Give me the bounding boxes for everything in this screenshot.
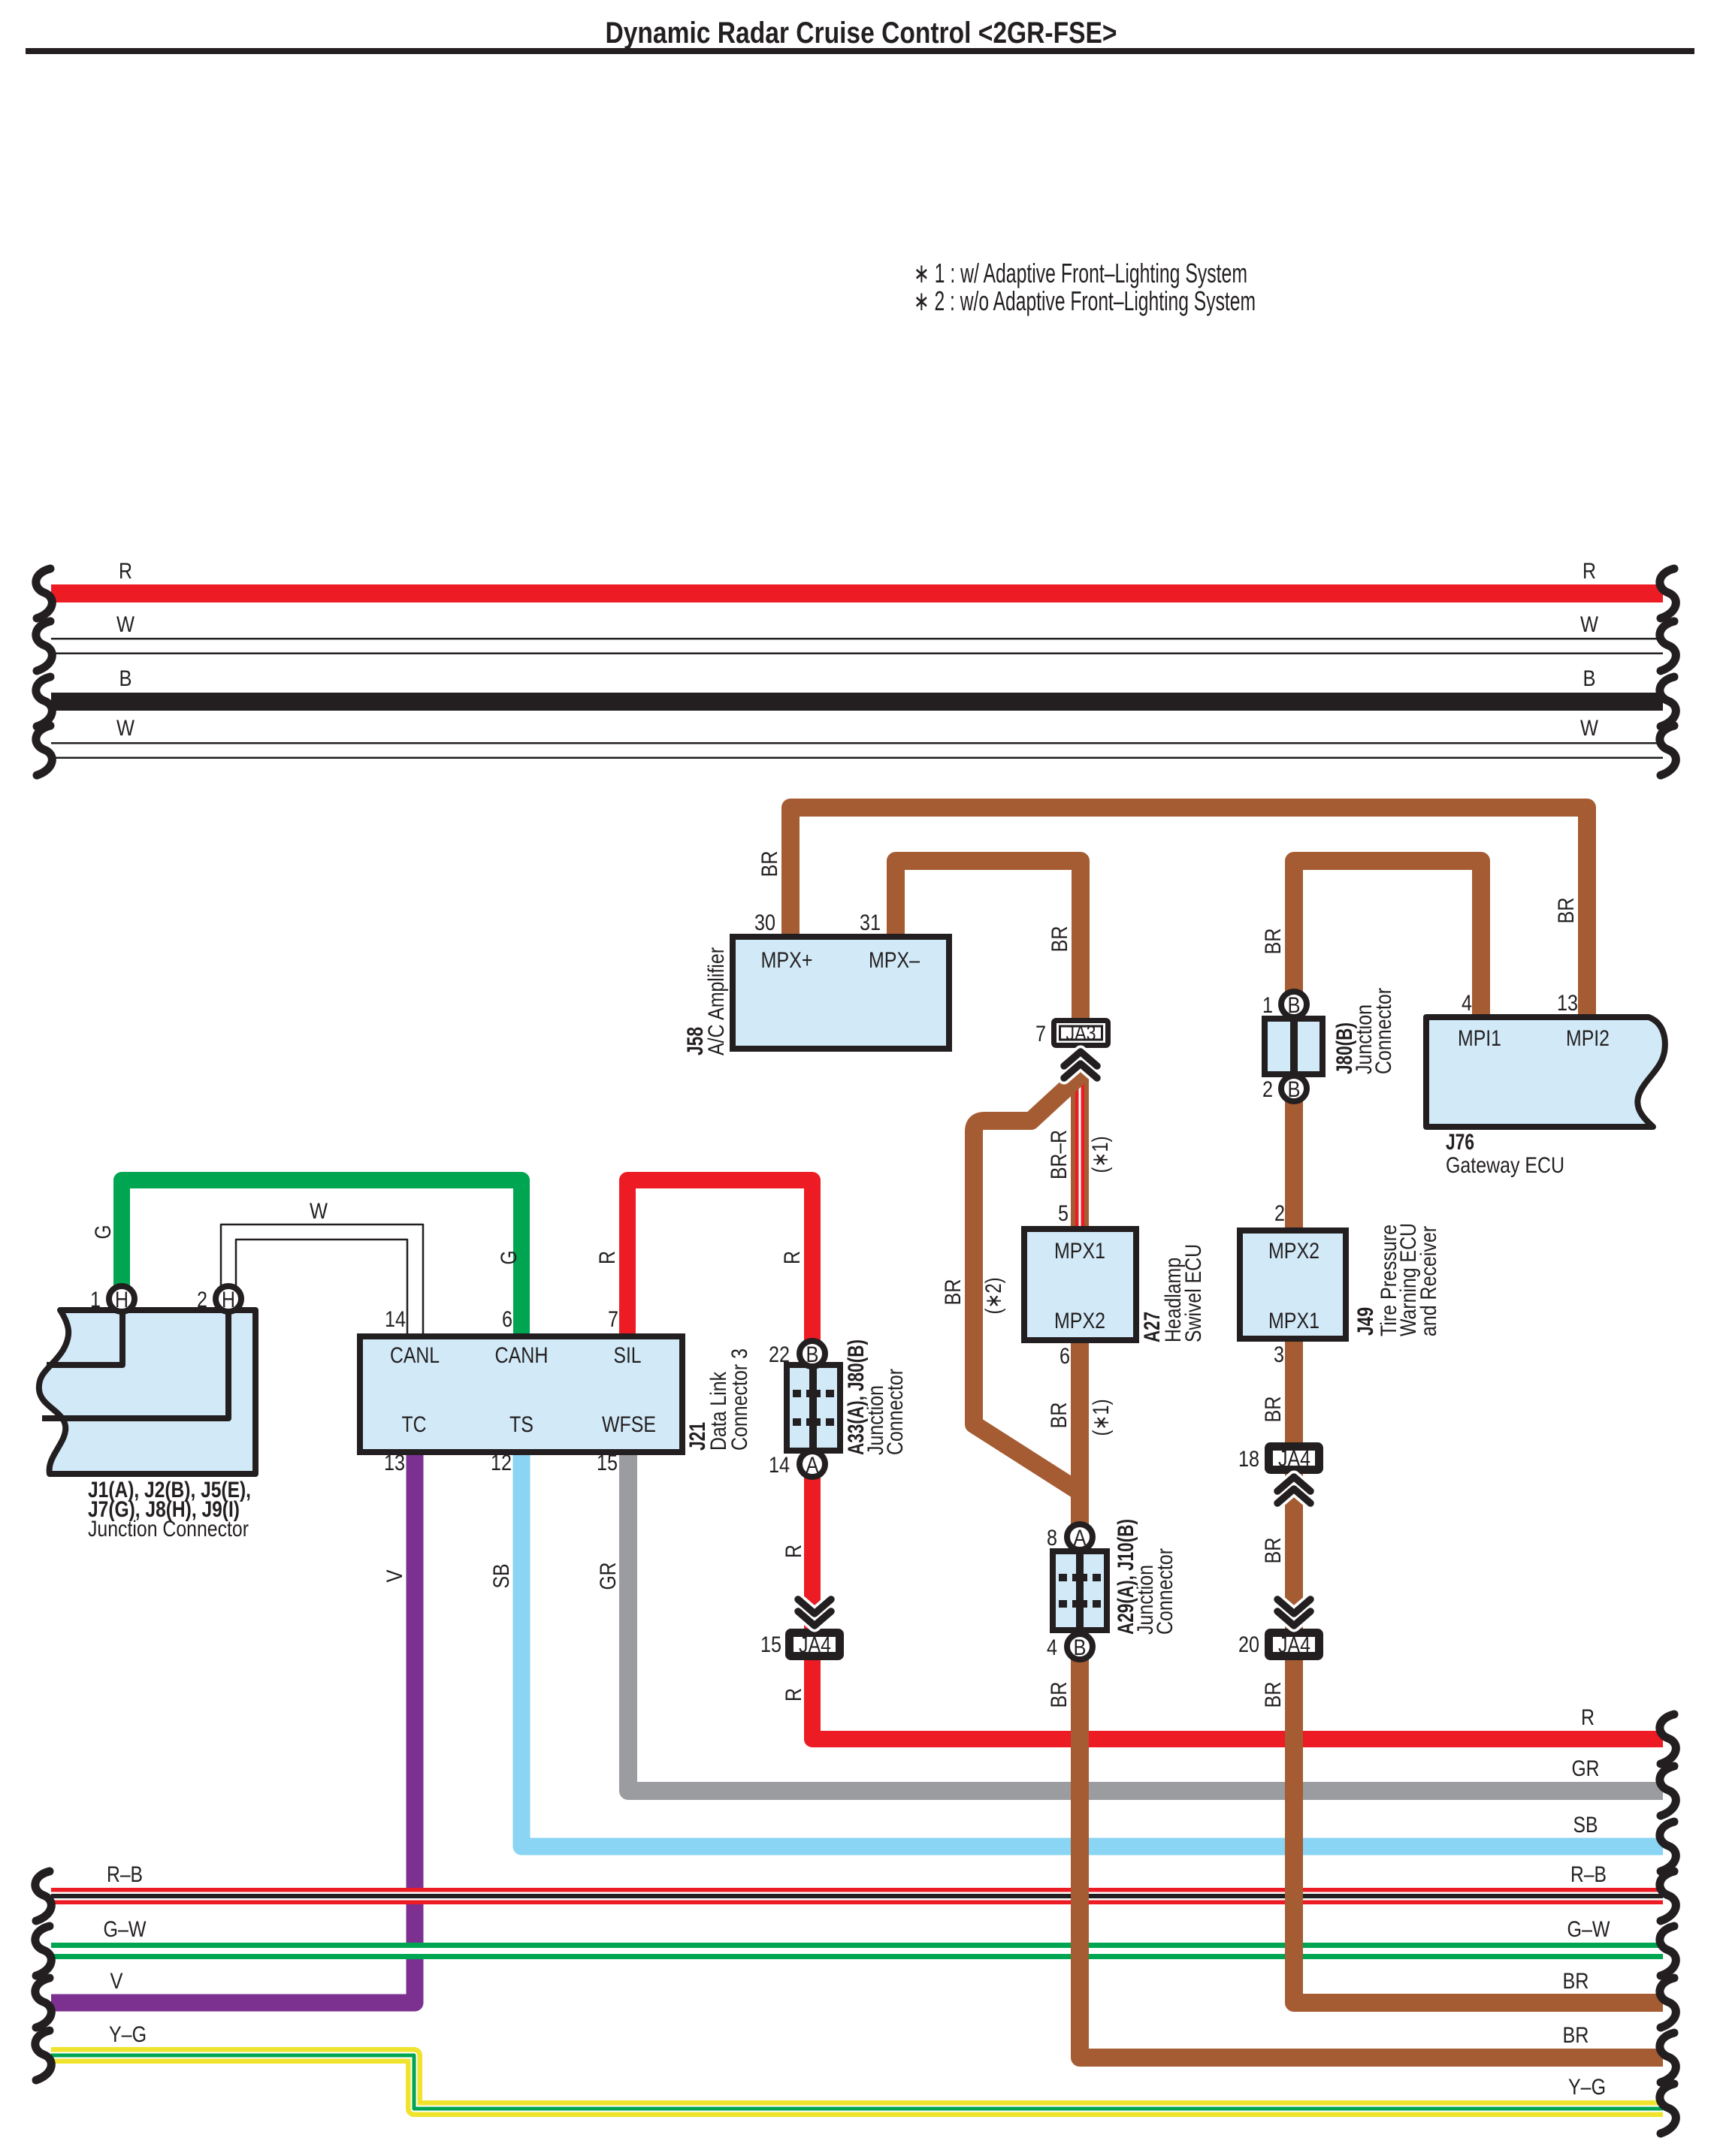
svg-text:15: 15 bbox=[760, 1632, 781, 1657]
chevron arrow at JA3 bbox=[1064, 1052, 1097, 1066]
svg-text:MPI2: MPI2 bbox=[1566, 1026, 1610, 1051]
wire BR J58 pin30 to J76 MPI2 bbox=[790, 808, 1587, 1019]
wire R top bus bbox=[51, 584, 1663, 602]
svg-text:R: R bbox=[781, 1545, 806, 1558]
svg-text:Junction Connector: Junction Connector bbox=[88, 1517, 249, 1542]
pin circle B1 bbox=[1281, 992, 1307, 1017]
svg-text:2: 2 bbox=[1274, 1201, 1285, 1226]
svg-text:14: 14 bbox=[385, 1307, 406, 1332]
pin circle H1 bbox=[109, 1286, 135, 1312]
component J21 Data Link Connector 3 bbox=[360, 1336, 682, 1452]
svg-text:6: 6 bbox=[502, 1307, 512, 1332]
torn-end squiggles left bottom buses bbox=[35, 1871, 51, 1921]
svg-text:22: 22 bbox=[769, 1342, 790, 1367]
component J76 Gateway ECU (torn right edge) bbox=[1426, 1017, 1665, 1127]
wire BR A27 MPX2 through A29 junction to right edge bbox=[1080, 1339, 1663, 2058]
svg-text:(∗1): (∗1) bbox=[1089, 1400, 1114, 1436]
svg-text:∗ 2 : w/o Adaptive Front–Light: ∗ 2 : w/o Adaptive Front–Lighting System bbox=[914, 285, 1256, 316]
svg-text:30: 30 bbox=[754, 910, 775, 935]
wire W top bus bbox=[51, 638, 1663, 654]
connector JA4 pin20 bbox=[1269, 1633, 1319, 1656]
pin circle B22 bbox=[800, 1341, 825, 1366]
chevron arrow at JA4 pin15 bbox=[798, 1611, 831, 1626]
svg-text:3: 3 bbox=[1274, 1342, 1284, 1367]
svg-text:A: A bbox=[1074, 1526, 1087, 1551]
svg-text:G–W: G–W bbox=[1567, 1917, 1611, 1942]
component J1/J2/J5/J7/J8/J9 Junction Connector (torn left edge) bbox=[39, 1310, 255, 1474]
svg-text:R–B: R–B bbox=[1570, 1862, 1607, 1887]
svg-text:R: R bbox=[781, 1688, 806, 1702]
svg-text:BR: BR bbox=[1047, 1403, 1072, 1429]
svg-text:JA4: JA4 bbox=[799, 1633, 831, 1658]
svg-text:∗ 1 : w/ Adaptive Front–Lighti: ∗ 1 : w/ Adaptive Front–Lighting System bbox=[914, 258, 1247, 288]
wire G-W bus bbox=[51, 1943, 1663, 1959]
svg-text:G–W: G–W bbox=[104, 1917, 147, 1942]
svg-text:BR: BR bbox=[1261, 1538, 1286, 1564]
svg-text:2: 2 bbox=[1262, 1077, 1273, 1102]
svg-text:Connector: Connector bbox=[883, 1369, 908, 1455]
wire R-B bus bbox=[51, 1888, 1663, 1904]
svg-text:G: G bbox=[497, 1251, 521, 1265]
svg-text:GR: GR bbox=[596, 1563, 621, 1590]
connector JA4 pin18 bbox=[1269, 1447, 1319, 1470]
wire W lower top bus bbox=[51, 742, 1663, 759]
pin circle B4 bbox=[1067, 1634, 1093, 1659]
wire W junction connector H to J21 CANL bbox=[221, 1224, 423, 1340]
wire SB J21 TS to right edge bbox=[521, 1454, 1663, 1846]
component J58 A/C Amplifier bbox=[733, 937, 949, 1049]
svg-text:CANL: CANL bbox=[390, 1343, 440, 1368]
svg-text:Dynamic Radar Cruise Control <: Dynamic Radar Cruise Control <2GR-FSE> bbox=[606, 17, 1117, 50]
wire BR J49 MPX1 through JA4 pin18 and pin20 to right edge bbox=[1294, 1337, 1663, 2003]
component J49 Tire Pressure Warning ECU bbox=[1240, 1230, 1346, 1339]
svg-text:MPX2: MPX2 bbox=[1268, 1239, 1319, 1264]
svg-text:W: W bbox=[116, 612, 135, 637]
svg-text:Swivel ECU: Swivel ECU bbox=[1181, 1244, 1206, 1342]
svg-text:MPX–: MPX– bbox=[869, 948, 920, 973]
svg-text:BR: BR bbox=[1563, 1969, 1589, 1994]
svg-text:MPX1: MPX1 bbox=[1268, 1309, 1319, 1333]
svg-text:B: B bbox=[1583, 666, 1596, 691]
svg-text:TS: TS bbox=[509, 1412, 534, 1437]
svg-text:W: W bbox=[116, 716, 135, 741]
svg-text:R: R bbox=[595, 1251, 620, 1264]
svg-text:15: 15 bbox=[597, 1451, 618, 1475]
wire BR-R JA3 to A27 MPX1 bbox=[1071, 1052, 1089, 1230]
svg-text:BR–R: BR–R bbox=[1047, 1130, 1072, 1179]
pin circle A14 bbox=[800, 1451, 825, 1477]
svg-text:BR: BR bbox=[757, 851, 782, 877]
svg-text:BR: BR bbox=[1261, 1682, 1286, 1708]
svg-text:Connector: Connector bbox=[1153, 1548, 1177, 1635]
svg-text:BR: BR bbox=[1261, 1397, 1286, 1423]
svg-text:J76: J76 bbox=[1446, 1130, 1474, 1155]
svg-text:WFSE: WFSE bbox=[602, 1412, 656, 1437]
junction connector A29(A)/J10(B) grid box bbox=[1053, 1551, 1107, 1630]
connector JA3 pin7 bbox=[1054, 1021, 1108, 1046]
svg-text:SB: SB bbox=[1573, 1813, 1598, 1837]
svg-text:W: W bbox=[1580, 716, 1599, 741]
svg-text:CANH: CANH bbox=[495, 1343, 549, 1368]
svg-text:V: V bbox=[382, 1570, 407, 1583]
chevron arrow at JA4 pin20 bbox=[1277, 1611, 1310, 1626]
svg-text:SIL: SIL bbox=[614, 1343, 642, 1368]
svg-text:(∗2): (∗2) bbox=[981, 1278, 1006, 1315]
svg-text:Connector 3: Connector 3 bbox=[727, 1348, 752, 1451]
svg-text:B: B bbox=[806, 1342, 819, 1367]
torn-end squiggles left top bus bbox=[36, 569, 52, 618]
svg-text:R: R bbox=[119, 559, 132, 584]
svg-text:BR: BR bbox=[1261, 929, 1286, 955]
svg-text:BR: BR bbox=[941, 1279, 966, 1306]
wire BR overpass at JA4 pin20 column bbox=[1285, 1720, 1303, 2003]
svg-text:18: 18 bbox=[1238, 1447, 1259, 1472]
svg-text:A: A bbox=[806, 1453, 819, 1478]
pin circle B2 bbox=[1281, 1076, 1307, 1101]
svg-text:A/C Amplifier: A/C Amplifier bbox=[704, 947, 729, 1055]
svg-text:GR: GR bbox=[1572, 1756, 1600, 1781]
torn-end squiggles right top bus bbox=[1660, 569, 1676, 618]
svg-text:MPX1: MPX1 bbox=[1054, 1239, 1105, 1264]
svg-text:13: 13 bbox=[384, 1451, 405, 1475]
svg-text:13: 13 bbox=[1557, 991, 1578, 1016]
svg-text:1: 1 bbox=[90, 1288, 101, 1312]
svg-text:R: R bbox=[1582, 559, 1596, 584]
wire BR J80(B) to J76 MPI1 bbox=[1294, 861, 1481, 1019]
svg-text:B: B bbox=[1288, 1077, 1301, 1102]
svg-text:B: B bbox=[1074, 1635, 1087, 1660]
wire B top bus bbox=[51, 693, 1663, 711]
svg-text:R: R bbox=[1581, 1705, 1595, 1730]
svg-text:4: 4 bbox=[1462, 991, 1472, 1016]
svg-text:B: B bbox=[119, 666, 132, 691]
svg-text:and Receiver: and Receiver bbox=[1416, 1226, 1441, 1336]
component A27 Headlamp Swivel ECU bbox=[1024, 1229, 1136, 1340]
chevron arrow at JA4 pin18 bbox=[1277, 1477, 1310, 1491]
svg-text:W: W bbox=[310, 1199, 328, 1224]
svg-text:5: 5 bbox=[1058, 1201, 1069, 1226]
svg-text:4: 4 bbox=[1047, 1635, 1057, 1660]
svg-text:R–B: R–B bbox=[107, 1862, 143, 1887]
svg-text:MPI1: MPI1 bbox=[1458, 1026, 1501, 1051]
svg-text:B: B bbox=[1288, 993, 1301, 1018]
svg-text:2: 2 bbox=[197, 1288, 207, 1312]
svg-text:BR: BR bbox=[1563, 2023, 1589, 2048]
svg-text:J49: J49 bbox=[1353, 1307, 1378, 1336]
svg-text:MPX2: MPX2 bbox=[1054, 1309, 1105, 1333]
svg-text:1: 1 bbox=[1262, 993, 1273, 1018]
wire Y-G stepped bus bbox=[51, 2055, 1663, 2109]
svg-text:TC: TC bbox=[402, 1412, 427, 1437]
wire R J21 SIL through A33 junction and JA4 pin15 to right edge bus bbox=[627, 1180, 1663, 1739]
svg-text:14: 14 bbox=[769, 1453, 790, 1478]
svg-text:H: H bbox=[222, 1288, 235, 1312]
wire BR J80(B) pin2 to J49 MPX2 bbox=[1285, 1088, 1303, 1232]
svg-text:8: 8 bbox=[1047, 1526, 1057, 1551]
wire GR J21 WFSE to right edge bbox=[628, 1454, 1663, 1791]
svg-text:12: 12 bbox=[491, 1451, 512, 1475]
pin circle H2 bbox=[216, 1286, 241, 1312]
svg-text:BR: BR bbox=[1554, 898, 1579, 924]
svg-text:JA4: JA4 bbox=[1278, 1633, 1310, 1658]
svg-text:W: W bbox=[1580, 612, 1599, 637]
svg-text:V: V bbox=[110, 1969, 123, 1994]
svg-text:BR: BR bbox=[1047, 1682, 1072, 1708]
wire BR J58 pin31 to JA3 bbox=[896, 861, 1081, 1019]
svg-text:BR: BR bbox=[1047, 926, 1072, 953]
torn-end squiggles right bottom buses bbox=[1660, 1714, 1676, 1764]
svg-text:(∗1): (∗1) bbox=[1088, 1137, 1113, 1173]
svg-text:6: 6 bbox=[1060, 1344, 1070, 1369]
svg-text:7: 7 bbox=[608, 1307, 618, 1332]
title rule bbox=[26, 48, 1694, 54]
junction connector J80(B) grid box bbox=[1265, 1019, 1323, 1074]
svg-text:SB: SB bbox=[489, 1564, 514, 1589]
wire BR (*2) bypass JA3 to A29 bbox=[974, 1067, 1090, 1492]
wire BR overpass at A29 column bbox=[1071, 1720, 1089, 2058]
wire V J21 TC to left edge bbox=[51, 1454, 415, 2003]
svg-text:G: G bbox=[91, 1225, 116, 1240]
svg-text:Y–G: Y–G bbox=[1568, 2075, 1606, 2100]
junction connector A33(A)/J80(B) grid box bbox=[787, 1365, 840, 1451]
svg-text:Connector: Connector bbox=[1371, 988, 1396, 1074]
svg-text:H: H bbox=[115, 1288, 128, 1312]
svg-text:JA4: JA4 bbox=[1278, 1447, 1310, 1472]
svg-text:R: R bbox=[780, 1251, 805, 1264]
svg-text:JA3: JA3 bbox=[1066, 1022, 1096, 1045]
svg-text:20: 20 bbox=[1238, 1632, 1259, 1657]
svg-text:MPX+: MPX+ bbox=[761, 948, 813, 973]
connector JA4 pin15 bbox=[790, 1633, 840, 1656]
svg-text:Gateway ECU: Gateway ECU bbox=[1446, 1153, 1564, 1178]
wire G junction connector H to J21 CANH bbox=[122, 1180, 521, 1340]
pin circle A8 bbox=[1067, 1524, 1093, 1550]
svg-text:Y–G: Y–G bbox=[109, 2022, 147, 2047]
svg-text:7: 7 bbox=[1035, 1022, 1046, 1046]
svg-text:31: 31 bbox=[860, 910, 881, 935]
